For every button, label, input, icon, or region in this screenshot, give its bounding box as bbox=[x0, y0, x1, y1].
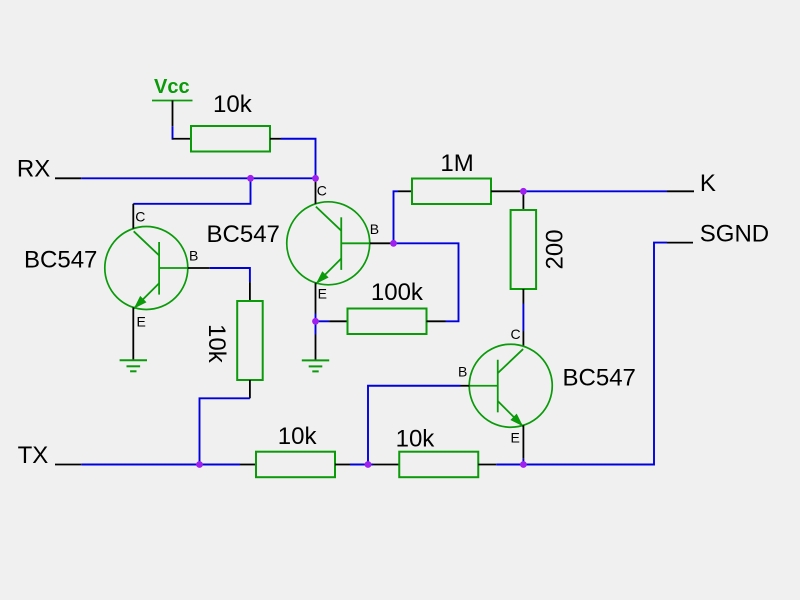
svg-text:10k: 10k bbox=[278, 423, 318, 450]
transistor Q3 BC547 mirrored bbox=[469, 344, 552, 427]
wire K net bbox=[523, 190, 667, 192]
svg-text:E: E bbox=[137, 314, 146, 330]
wire Q2 base to R7 bbox=[394, 243, 459, 321]
wire R2 to TX net bbox=[200, 398, 250, 464]
resistor R5 10k bbox=[256, 452, 335, 478]
wire Q3 emitter to TX net bbox=[522, 459, 524, 465]
wire RX net horizontal bbox=[81, 177, 316, 179]
svg-text:C: C bbox=[511, 326, 521, 342]
wire lead R6 left bbox=[373, 464, 399, 466]
wire lead Q2 emitter pin bbox=[315, 283, 317, 314]
wire lead ground GND2 bbox=[315, 335, 317, 361]
svg-text:E: E bbox=[511, 430, 520, 446]
wire lead Q3 collector pin bbox=[522, 331, 524, 346]
svg-text:TX: TX bbox=[18, 442, 49, 469]
svg-text:10k: 10k bbox=[213, 91, 253, 118]
svg-text:BC547: BC547 bbox=[24, 247, 97, 274]
svg-text:SGND: SGND bbox=[700, 221, 769, 248]
ground symbol GND1 bbox=[120, 360, 147, 371]
node junction K bbox=[520, 188, 527, 195]
wire lead R4 top bbox=[522, 191, 524, 210]
wire emitter node to R7 bbox=[318, 320, 329, 322]
wire lead TX pin bbox=[55, 464, 81, 466]
wire lead R5 left bbox=[240, 464, 256, 466]
wire Q2 base to R3 bbox=[394, 191, 399, 243]
wire lead K pin bbox=[667, 190, 694, 192]
wire lead Q3 base pin bbox=[461, 385, 470, 387]
wire lead RX pin bbox=[55, 177, 81, 179]
transistor Q2 BC547 bbox=[287, 202, 370, 285]
wire lead R1 right bbox=[270, 138, 281, 140]
svg-text:100k: 100k bbox=[371, 279, 424, 306]
svg-text:10k: 10k bbox=[203, 324, 230, 364]
wire Q2 emitter to node bbox=[315, 314, 317, 335]
wire lead R7 right bbox=[427, 320, 446, 322]
svg-text:C: C bbox=[135, 209, 145, 225]
wire R4 to Q3 collector bbox=[522, 304, 524, 332]
wire lead Q2 collector pin bbox=[315, 182, 317, 204]
svg-text:B: B bbox=[458, 363, 467, 379]
wire lead SGND pin bbox=[667, 242, 693, 244]
resistor R3 1M bbox=[412, 179, 491, 205]
wire lead Q2 base pin bbox=[370, 242, 394, 244]
wire Vcc to R1 bbox=[172, 126, 174, 139]
resistor R7 100k bbox=[348, 309, 427, 335]
svg-text:RX: RX bbox=[17, 155, 50, 182]
wire TX node to Q3 base bbox=[368, 386, 461, 465]
node junction Q2 emitter bbox=[312, 318, 319, 325]
ground symbol GND2 bbox=[302, 360, 329, 371]
node junction TX-R2 bbox=[196, 461, 203, 468]
wire lead R2 top bbox=[249, 282, 251, 301]
wire R1 to RX net bbox=[281, 139, 316, 182]
resistor R4 200 vertical bbox=[511, 210, 536, 289]
wire lead Q1 base pin bbox=[188, 267, 210, 269]
node junction TX-Q3base bbox=[365, 461, 372, 468]
wire lead R1 left bbox=[173, 138, 192, 140]
svg-text:B: B bbox=[189, 248, 198, 264]
wire R5 to node bbox=[350, 464, 373, 466]
wire emitter node to SGND bbox=[523, 243, 667, 465]
wire RX to Q1 collector bbox=[133, 178, 250, 204]
wire R6 to Q3 emitter node bbox=[496, 464, 523, 466]
wire lead Q1 emitter pin bbox=[132, 308, 134, 361]
power symbol Vcc bbox=[152, 76, 193, 126]
wire TX net to R5 bbox=[81, 464, 240, 466]
wire lead Q3 emitter pin bbox=[522, 425, 524, 459]
svg-text:BC547: BC547 bbox=[207, 221, 280, 248]
node junction Q3 emitter bbox=[520, 461, 527, 468]
transistor Q1 BC547 bbox=[105, 227, 188, 310]
resistor R2 10k vertical bbox=[237, 301, 263, 380]
node junction RX-Q1 bbox=[247, 175, 254, 182]
svg-text:B: B bbox=[370, 221, 379, 237]
wire lead R4 bottom bbox=[522, 289, 524, 304]
svg-text:BC547: BC547 bbox=[563, 364, 636, 391]
wire lead R7 left bbox=[329, 320, 347, 322]
wire lead R2 bottom bbox=[249, 380, 251, 398]
resistor R6 10k bbox=[399, 452, 478, 478]
svg-text:K: K bbox=[700, 170, 716, 197]
node junction Q2 base bbox=[390, 240, 397, 247]
svg-text:C: C bbox=[317, 182, 327, 198]
node junction RX-R1-Q2 bbox=[312, 175, 319, 182]
svg-text:Vcc: Vcc bbox=[154, 76, 190, 98]
svg-text:200: 200 bbox=[542, 229, 569, 269]
wire lead Q1 collector pin bbox=[132, 204, 134, 229]
wire lead R6 right bbox=[478, 464, 496, 466]
wire Q1 base to R2 bbox=[210, 268, 250, 282]
svg-text:10k: 10k bbox=[396, 425, 436, 452]
svg-text:1M: 1M bbox=[440, 150, 473, 177]
svg-text:E: E bbox=[318, 286, 327, 302]
resistor R1 10k bbox=[191, 126, 270, 152]
wire lead R3 left bbox=[398, 190, 412, 192]
wire lead R3 right bbox=[491, 190, 523, 192]
wire lead R5 right bbox=[335, 464, 350, 466]
